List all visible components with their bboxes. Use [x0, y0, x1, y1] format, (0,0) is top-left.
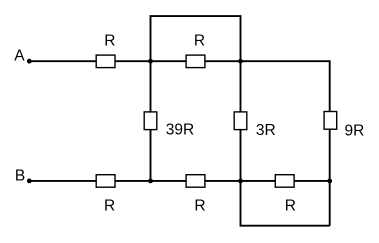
- svg-text:R: R: [104, 198, 115, 215]
- svg-text:R: R: [194, 198, 205, 215]
- svg-text:R: R: [104, 32, 115, 49]
- svg-text:B: B: [15, 168, 25, 185]
- svg-text:R: R: [194, 32, 205, 49]
- svg-text:9R: 9R: [345, 122, 365, 139]
- svg-text:A: A: [14, 48, 25, 65]
- svg-text:3R: 3R: [256, 122, 276, 139]
- svg-text:39R: 39R: [166, 122, 194, 139]
- svg-text:R: R: [285, 197, 296, 214]
